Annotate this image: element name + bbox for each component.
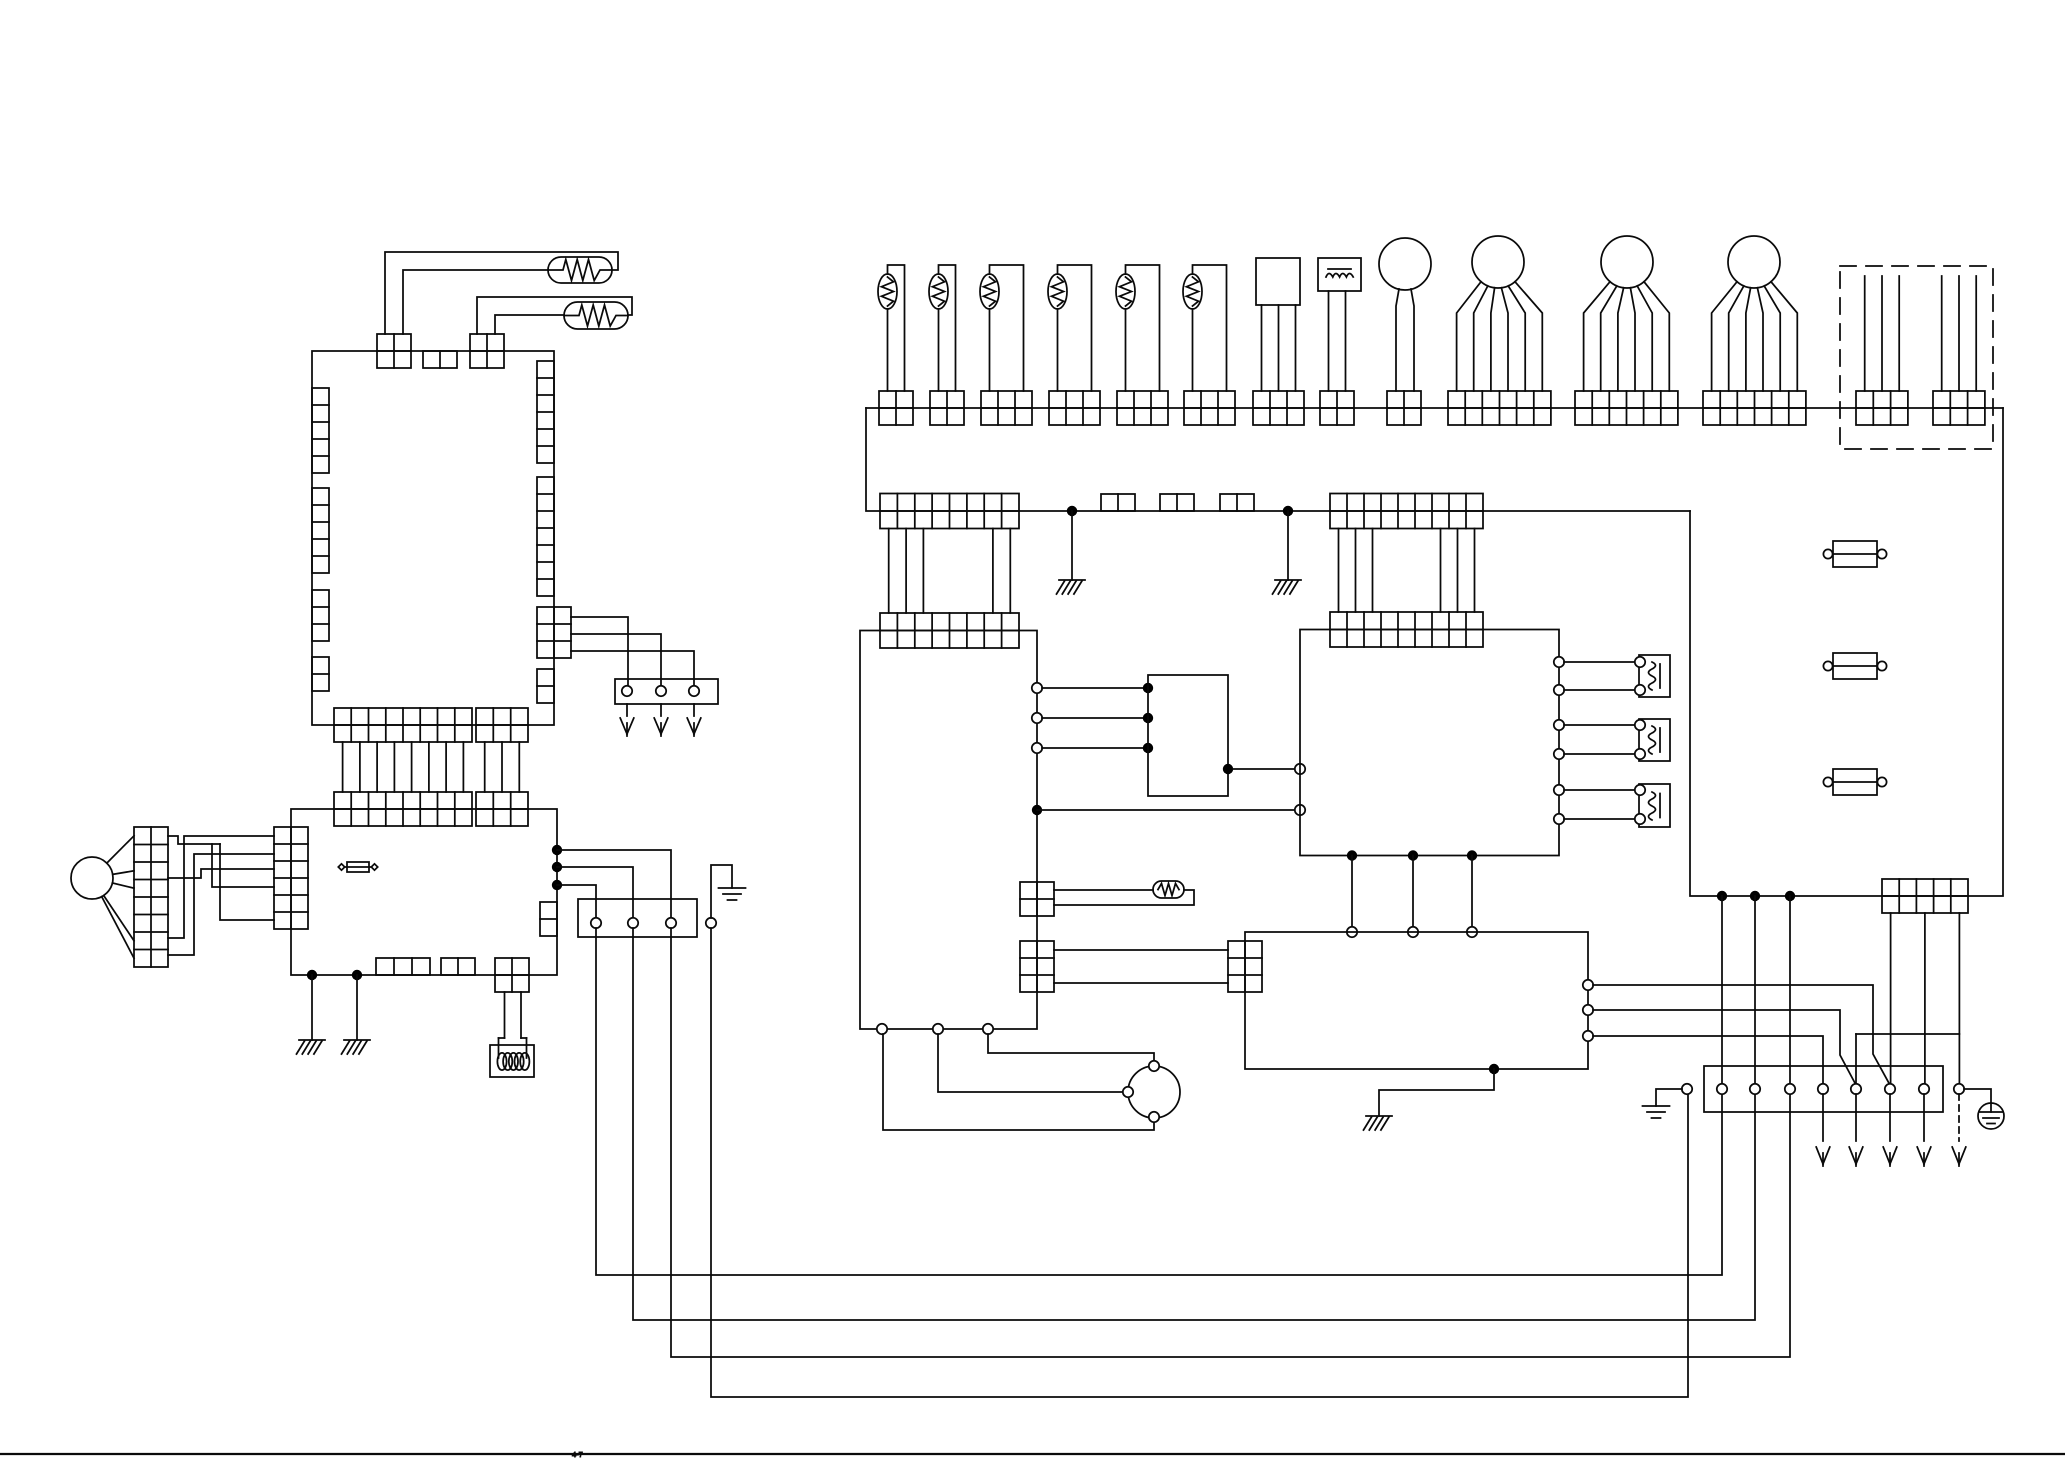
svg-text:4-7: 4-7 (572, 1450, 583, 1458)
